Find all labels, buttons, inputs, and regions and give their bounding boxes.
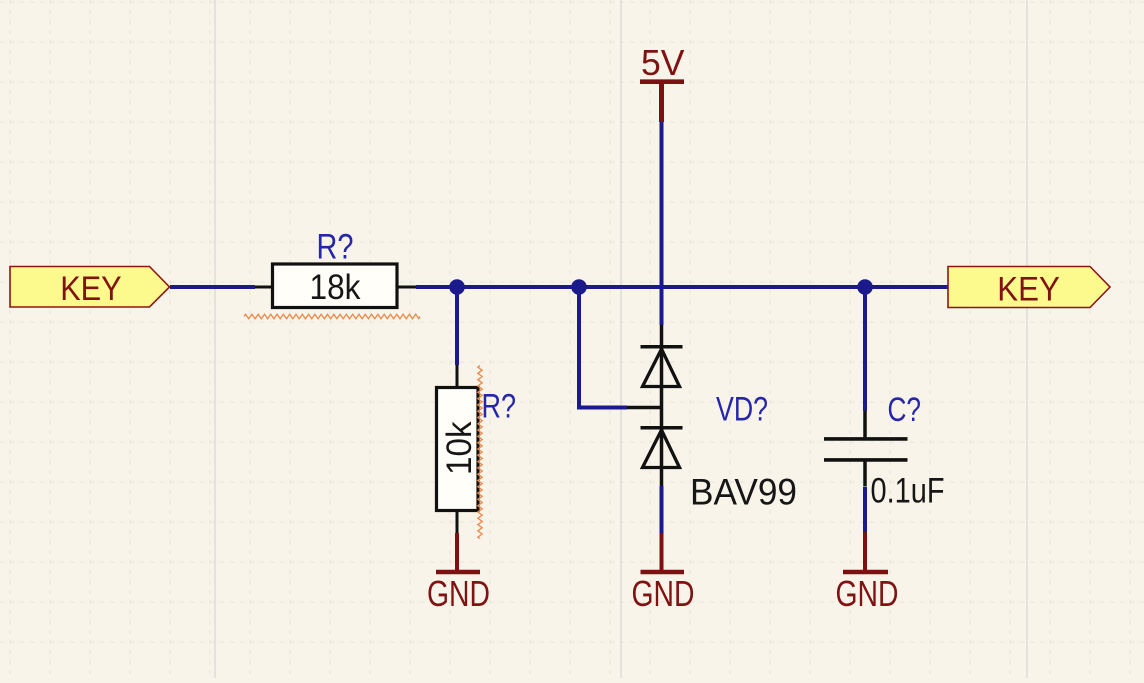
port KEY left [10, 267, 170, 308]
junction node A [449, 279, 465, 295]
svg-text:GND: GND [632, 573, 695, 614]
capacitor C1 0.1uF [824, 391, 945, 511]
ground GND3 [836, 532, 899, 614]
svg-text:R?: R? [482, 387, 517, 425]
error marker zigzag horizontal [244, 314, 420, 318]
svg-text:GND: GND [427, 573, 490, 614]
wire [455, 287, 459, 365]
ground GND1 [427, 533, 490, 614]
svg-text:18k: 18k [310, 267, 361, 307]
wire [863, 287, 867, 411]
resistor R1 18k [255, 228, 416, 308]
ground GND2 [632, 533, 695, 614]
svg-text:BAV99: BAV99 [690, 471, 797, 512]
svg-text:VD?: VD? [716, 390, 768, 428]
svg-text:10k: 10k [439, 421, 479, 475]
wire [863, 487, 867, 532]
svg-text:0.1uF: 0.1uF [871, 471, 945, 511]
junction node B [571, 279, 587, 295]
wire [660, 122, 664, 325]
svg-text:KEY: KEY [60, 270, 121, 308]
svg-text:C?: C? [888, 391, 922, 429]
wire [416, 285, 948, 289]
port KEY right [948, 267, 1110, 309]
power 5V [640, 42, 685, 122]
wire [660, 486, 664, 533]
wire [579, 287, 627, 408]
diode VD1 BAV99 [627, 325, 797, 512]
junction node C [857, 279, 873, 295]
resistor R2 10k [437, 365, 517, 533]
svg-text:R?: R? [317, 228, 354, 267]
svg-text:5V: 5V [641, 42, 685, 83]
wire [170, 285, 255, 289]
error marker zigzag vertical [478, 366, 482, 539]
svg-text:GND: GND [836, 573, 899, 614]
svg-text:KEY: KEY [997, 270, 1060, 308]
